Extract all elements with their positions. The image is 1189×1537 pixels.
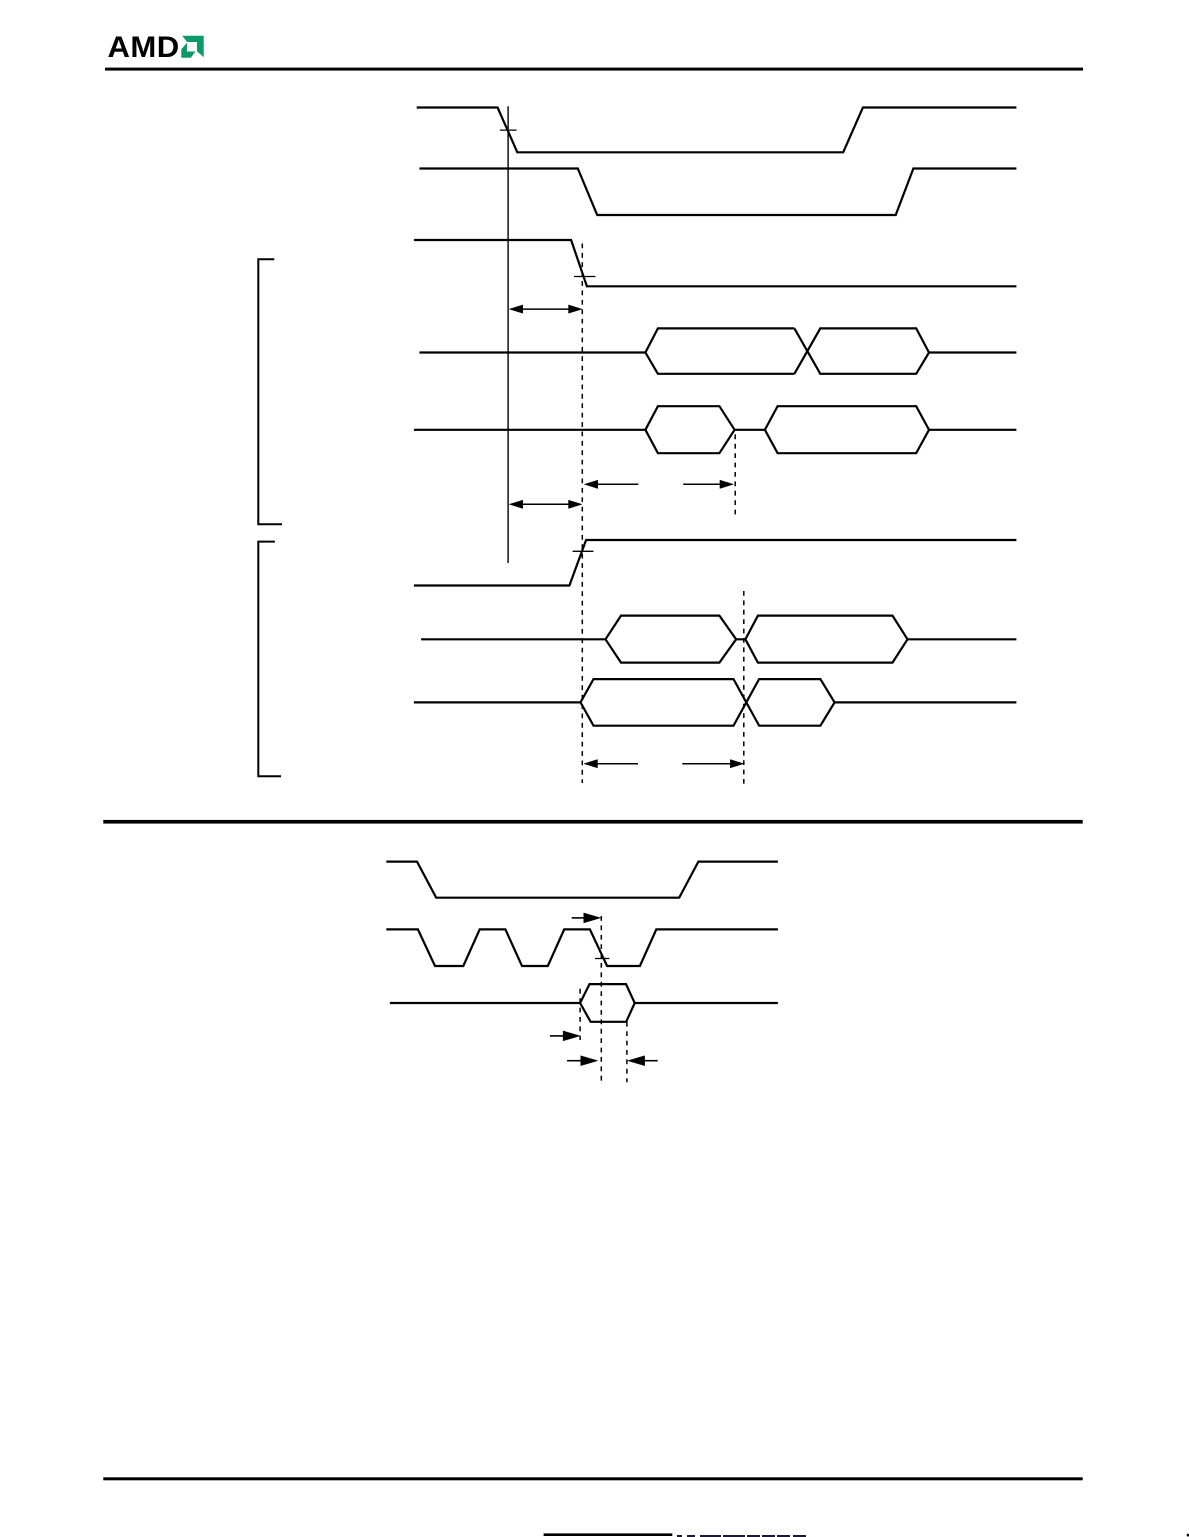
bracket for group 2 — [258, 542, 281, 777]
dashed reference line t1 — [581, 244, 583, 784]
dimension arrow pointing left at t1 (second group) — [584, 760, 638, 768]
data trace C with valid window (lower diagram) — [390, 984, 778, 1022]
dimension arrow pointing right at t3 (second group) — [682, 760, 744, 768]
dimension arrow to data start (right-pointing) — [550, 1031, 580, 1041]
signal trace S1 (top waveform, high-low-high) — [417, 108, 1017, 153]
tick on S3 falling edge — [574, 276, 596, 278]
bus trace S5 (two valid windows) — [414, 406, 1017, 453]
header rule — [105, 68, 1083, 71]
signal trace S3 (third waveform, falls and stays low) — [414, 240, 1017, 286]
signal trace S2 (second waveform) — [419, 169, 1016, 216]
footer underline bar (clipped at page bottom) — [544, 1533, 673, 1536]
dimension arrow t0-t1 (upper) — [509, 305, 582, 313]
page corner mark — [1187, 1534, 1189, 1537]
clock trace B (lower diagram) — [386, 929, 778, 966]
dashed reference line t3 — [743, 591, 745, 786]
bus trace S4 with crossover — [419, 328, 1016, 373]
dashed reference line u1 (clock edge) — [600, 916, 602, 1082]
dimension arrow pointing right at t2 — [683, 480, 733, 488]
tick on clock falling edge — [595, 958, 609, 960]
tick on S6 rising edge — [573, 550, 594, 552]
dimension arrow to clock edge (right-pointing) — [572, 913, 601, 923]
dashed reference line t2 — [734, 434, 736, 514]
dimension arrow to u3 (left-pointing, bottom row) — [628, 1056, 658, 1066]
bracket for group 1 — [258, 259, 282, 524]
vertical reference line t0 — [507, 106, 509, 563]
tick on S1 falling edge — [500, 129, 517, 131]
AMD arrow symbol (green mark) — [181, 36, 203, 58]
dimension arrow t0-t1 (lower copy) — [509, 500, 582, 508]
bus trace S8 with crossover — [414, 679, 1017, 726]
signal trace A (lower diagram, active-low pulse) — [386, 862, 778, 898]
svg-text:AMD: AMD — [108, 32, 180, 64]
dashed reference line u2 (data start) — [579, 989, 581, 1040]
clipped footer text sliver — [677, 1535, 806, 1537]
section separator rule — [103, 820, 1082, 824]
dashed reference line u3 (data end) — [626, 1022, 628, 1083]
footer rule — [103, 1477, 1082, 1480]
signal trace S6 (rises at t1) — [414, 540, 1017, 586]
dimension arrow pointing left at t1 — [584, 480, 638, 488]
bus trace S7 (two valid windows) — [421, 616, 1016, 663]
dimension arrow to u1 (right-pointing, bottom row) — [567, 1056, 598, 1066]
